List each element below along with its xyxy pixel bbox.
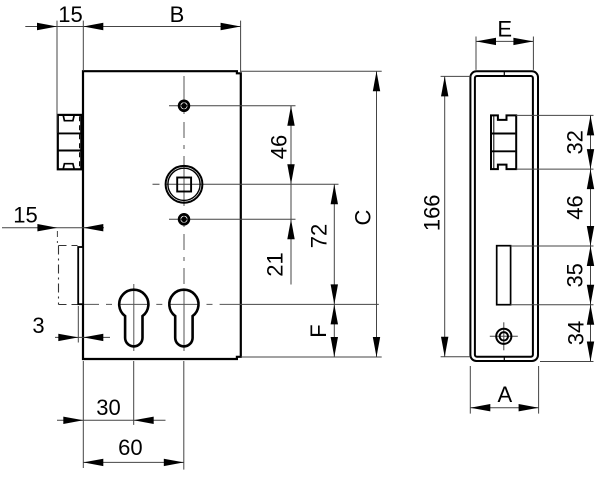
svg-text:21: 21	[263, 252, 288, 276]
hidden pocket dashed box left line	[58, 246, 60, 305]
svg-text:C: C	[351, 209, 376, 225]
arrow left at 83.3	[83, 23, 103, 30]
arrow down at 357 for F	[331, 337, 338, 357]
arrow down at 184.3	[287, 164, 294, 184]
svg-text:A: A	[497, 382, 512, 407]
cylinder hole 2	[169, 290, 198, 347]
extension line faceplate 3mm	[77, 306, 79, 343]
roller side inner vertical line	[493, 116, 495, 169]
dimension line C vertical	[376, 71, 378, 357]
arrow up at 169.1	[587, 169, 594, 189]
extension slot top right	[511, 245, 594, 247]
arrow down at 304.4 for 72	[331, 284, 338, 304]
arrow right tip at 183.8 for 60	[164, 459, 184, 466]
arrow left at 133.7 for 30	[134, 417, 154, 424]
extension line body left edge up	[82, 21, 84, 71]
dimension line A	[470, 407, 538, 409]
arrow right tip E	[513, 38, 533, 45]
arrow down at 361.5	[587, 342, 594, 362]
arrow right at 57 mid	[37, 224, 57, 231]
dimension line E	[476, 40, 533, 42]
roller bolt side view outline	[491, 115, 516, 169]
seam tick bottom	[503, 357, 505, 361]
extension roller bottom right	[516, 168, 593, 170]
arrow left at 83.3 mid	[83, 224, 103, 231]
arrow right at 83.3 for 30	[63, 417, 83, 424]
side view inner case outline	[475, 76, 533, 357]
extension roller top right	[516, 114, 593, 116]
dimension line 15 and B top	[25, 26, 240, 28]
lower screw center cross	[169, 218, 296, 220]
extension line cylinder1 down	[133, 361, 135, 425]
hidden pocket dashed box bottom line	[59, 304, 78, 306]
roller top notch	[63, 116, 74, 121]
arrow up 166	[441, 76, 448, 96]
arrow down at 169.1	[587, 149, 594, 169]
dimension line 72/F vertical	[333, 184, 335, 357]
arrow up at 71.2 for C	[373, 71, 380, 91]
extension line body right edge up	[240, 21, 242, 73]
arrow down at 357 for C	[373, 337, 380, 357]
extension 166 top	[441, 75, 471, 77]
svg-text:B: B	[170, 2, 185, 27]
arrow up at 184.3 for 72	[331, 184, 338, 204]
arrow up at 304.7	[587, 305, 594, 325]
dimension line 30	[57, 419, 166, 421]
extension line bottom right of body	[241, 356, 382, 358]
roller side band lower	[492, 150, 516, 152]
arrow down 166	[441, 337, 448, 357]
roller hidden edge dashed	[79, 116, 81, 168]
arrow left tip A	[470, 404, 490, 411]
arrow right tip A	[519, 404, 539, 411]
extension line top left roller	[56, 21, 58, 133]
spindle square hole	[177, 178, 191, 192]
arrow down at 304.7	[587, 285, 594, 305]
extension E right	[532, 37, 534, 70]
arrow up at 115.4	[587, 115, 594, 135]
roller band line upper	[58, 132, 82, 134]
svg-text:32: 32	[563, 130, 588, 154]
svg-text:46: 46	[563, 195, 588, 219]
arrow up at 105.8	[287, 106, 294, 126]
svg-text:34: 34	[564, 321, 589, 345]
dashed extension below 15 dim	[56, 231, 58, 243]
arrow left tip at 83.3 for 60	[83, 459, 103, 466]
svg-text:60: 60	[118, 435, 142, 460]
dimension line 46/21 vertical	[290, 106, 292, 285]
spindle follower inner circle	[168, 168, 200, 200]
roller band line lower	[58, 150, 82, 152]
extension line body left edge down	[82, 361, 84, 468]
arrow down at 246	[587, 226, 594, 246]
side screw outer circle	[496, 329, 511, 344]
cylinder hole 1	[119, 290, 148, 347]
extension case bottom right	[540, 361, 594, 363]
extension 166 bottom	[441, 356, 471, 358]
extension line top right of body	[241, 70, 382, 72]
roller side band upper	[492, 133, 516, 135]
side screw inner circle	[500, 332, 508, 340]
arrow left tip E	[476, 38, 496, 45]
side view outer cap outline	[470, 71, 538, 361]
upper screw	[179, 101, 189, 111]
arrow right at 57	[37, 23, 57, 30]
roller bolt front view outline	[58, 115, 82, 169]
extension line cylinder2 down	[183, 361, 185, 470]
arrow up at 219.3	[287, 219, 294, 239]
seam tick top	[503, 71, 505, 76]
arrow left at 83.3 for 3 dim	[83, 334, 103, 341]
svg-text:F: F	[306, 324, 331, 337]
svg-text:E: E	[497, 17, 512, 42]
svg-text:30: 30	[96, 395, 120, 420]
arrow right at 78.3	[58, 334, 78, 341]
hidden pocket dashed box top line	[59, 245, 78, 247]
extension A left	[469, 366, 471, 414]
slot in side view	[497, 246, 511, 305]
svg-text:72: 72	[306, 224, 331, 248]
side screw crosshair horizontal	[490, 335, 518, 337]
svg-text:3: 3	[32, 313, 44, 338]
extension slot bottom right	[511, 304, 594, 306]
vertical center line through spindle and cylinder 2	[183, 76, 185, 351]
dimension line right column	[590, 115, 592, 361]
svg-text:46: 46	[267, 135, 292, 159]
dimension line 166	[444, 76, 446, 356]
extension A right	[538, 366, 540, 414]
arrow right at 240.6	[221, 23, 241, 30]
svg-text:166: 166	[419, 194, 444, 231]
faceplate strip 3mm	[78, 247, 83, 304]
svg-text:35: 35	[563, 263, 588, 287]
upper screw center cross	[169, 105, 296, 107]
svg-text:15: 15	[58, 2, 82, 27]
front view: lock case body outline	[83, 71, 241, 359]
roller bottom notch	[63, 164, 74, 169]
dimension line 3	[55, 336, 110, 338]
spindle center line horizontal	[153, 183, 339, 185]
arrow up at 246	[587, 246, 594, 266]
extension line cylinder center right	[241, 303, 379, 305]
vertical center line through cylinder 1	[133, 284, 135, 351]
extension E left	[475, 37, 477, 70]
lower screw	[179, 214, 189, 224]
arrow up at 304.4 for F	[331, 304, 338, 324]
spindle follower outer circle	[166, 166, 203, 203]
dimension line 60	[83, 461, 184, 463]
horizontal center line through cylinders	[84, 303, 241, 305]
side screw crosshair vertical	[503, 322, 505, 350]
svg-text:15: 15	[13, 203, 37, 228]
dimension line 15 left middle	[2, 227, 104, 229]
